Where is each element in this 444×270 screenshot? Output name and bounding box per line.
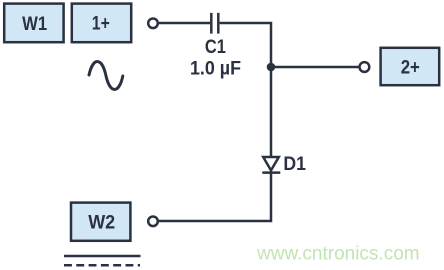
svg-text:1.0 µF: 1.0 µF: [190, 58, 241, 79]
svg-text:D1: D1: [283, 154, 306, 175]
svg-text:1+: 1+: [92, 14, 110, 35]
svg-text:2+: 2+: [401, 58, 420, 79]
svg-text:W2: W2: [88, 212, 115, 233]
svg-text:C1: C1: [205, 37, 226, 58]
svg-text:W1: W1: [22, 14, 47, 35]
svg-text:www.cntronics.com: www.cntronics.com: [256, 244, 420, 265]
